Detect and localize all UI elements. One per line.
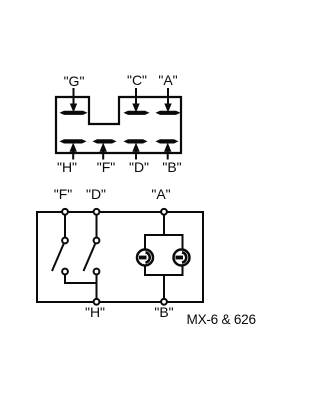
wire S2 to H: [96, 274, 98, 301]
terminal blade H: [60, 139, 87, 143]
terminal B node: [161, 299, 167, 305]
wire S1 to junction: [65, 274, 97, 283]
svg-text:"A": "A": [151, 186, 170, 202]
pin F arrow: [100, 143, 107, 160]
svg-text:"F": "F": [97, 159, 116, 175]
svg-text:MX-6 & 626: MX-6 & 626: [187, 312, 256, 327]
terminal H node: [94, 299, 100, 305]
svg-text:"B": "B": [154, 304, 173, 320]
svg-text:"B": "B": [162, 159, 181, 175]
pin G arrow: [70, 88, 77, 113]
svg-text:"C": "C": [127, 72, 147, 88]
switch S2 lower contact: [94, 269, 100, 275]
wire bus to B: [163, 275, 165, 301]
svg-text:"G": "G": [64, 73, 85, 89]
wire lamp top bus: [145, 235, 183, 250]
circuit box: [37, 212, 203, 302]
terminal D node: [94, 209, 100, 215]
wire lamp bottom bus: [145, 266, 183, 276]
pin C arrow: [132, 88, 139, 113]
lamp L1: [137, 250, 153, 266]
wire F lead: [64, 213, 66, 238]
connector outline (top view with key notch): [56, 97, 181, 153]
svg-text:"H": "H": [85, 304, 105, 320]
wire A lead: [163, 213, 165, 235]
pin A arrow: [164, 88, 171, 113]
wire D lead: [96, 213, 98, 238]
svg-text:"H": "H": [57, 159, 77, 175]
svg-text:"D": "D": [129, 159, 149, 175]
terminal blade A: [156, 111, 181, 115]
terminal blade C: [124, 111, 150, 115]
switch S1 blade: [52, 244, 64, 272]
terminal blade D: [124, 139, 148, 143]
switch S2 blade: [84, 244, 96, 272]
switch S1 upper contact: [62, 238, 68, 244]
pin D arrow: [132, 143, 139, 160]
pin H arrow: [70, 143, 77, 160]
switch S1 lower contact: [62, 269, 68, 275]
terminal F node: [62, 209, 68, 215]
svg-text:"A": "A": [158, 72, 177, 88]
terminal blade G: [60, 111, 88, 115]
switch S2 upper contact: [94, 238, 100, 244]
lamp L2: [174, 250, 190, 266]
terminal A node: [161, 209, 167, 215]
svg-text:"D": "D": [86, 186, 106, 202]
pin B arrow: [164, 143, 171, 160]
svg-text:"F": "F": [54, 186, 73, 202]
terminal blade B: [156, 139, 179, 143]
terminal blade F: [93, 139, 117, 143]
